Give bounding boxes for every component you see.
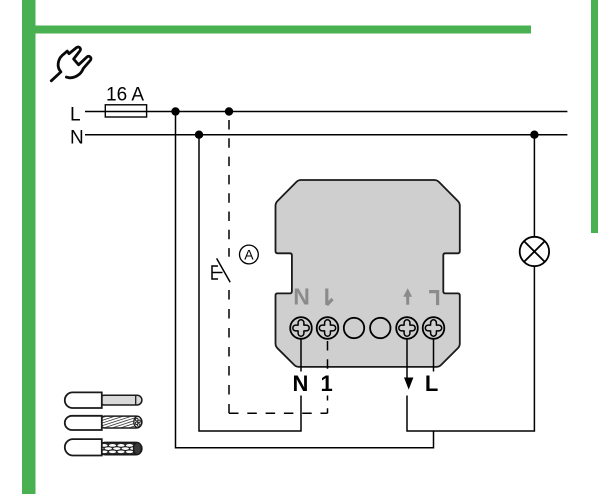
wire: N down from junction N1 [199,135,301,431]
green frame: left vertical bar [22,0,36,494]
terminal blank 4 [370,318,390,338]
green frame: right vertical bar [591,0,598,233]
wire stub terminal N [300,339,302,372]
wire stub terminal 1 (dashed) [327,341,329,372]
device printed up arrow (gray) [403,288,412,304]
output arrow down [404,378,413,390]
wire: dashed horizontal to terminal 1 [229,412,328,414]
wire: L down from junction L1 [176,112,434,448]
wire: lamp to N line [533,135,535,237]
terminal screw N [290,317,312,339]
node: junction N lamp [530,131,538,139]
terminal screw 1 [317,317,339,339]
wire stub output terminal [406,339,408,378]
svg-text:N: N [293,284,310,310]
lamp E1 [520,237,549,266]
device body U1 [276,180,460,367]
pushbutton S1 contact [217,258,231,282]
svg-text:N: N [70,128,84,149]
terminal blank 3 [344,318,364,338]
wire: output to lamp [407,266,534,431]
device printed harpoon (gray) [327,289,333,306]
wire stub terminal L [433,339,435,372]
wire: dashed up to label 1 [327,396,329,414]
cable icon: solid conductor [65,392,142,408]
fuse F1 16A [105,85,146,118]
svg-text:N: N [293,371,309,396]
device printed turned-L (gray) [429,292,438,306]
svg-text:16 A: 16 A [106,85,144,106]
pushbutton label circle A [240,245,259,264]
pushbutton S1 actuator [212,266,223,279]
svg-text:L: L [425,371,438,396]
wire: dashed below pushbutton down [228,290,230,413]
cable icon: braided conductor [65,439,146,455]
svg-text:1: 1 [320,371,332,396]
node: junction L1 [171,107,179,115]
terminal screw L [423,317,445,339]
svg-text:L: L [70,105,81,126]
wire: L line [85,111,567,113]
wire: N line [85,134,567,136]
plug icon [51,47,91,81]
cable icon: stranded conductor [65,404,143,446]
wire: dashed control from junction L2 to pushbutton [228,120,230,257]
green frame: top horizontal bar [22,26,531,34]
svg-text:A: A [244,247,254,263]
node: junction N1 [195,131,203,139]
terminal screw out [396,317,418,339]
node: junction L2 [225,107,233,115]
